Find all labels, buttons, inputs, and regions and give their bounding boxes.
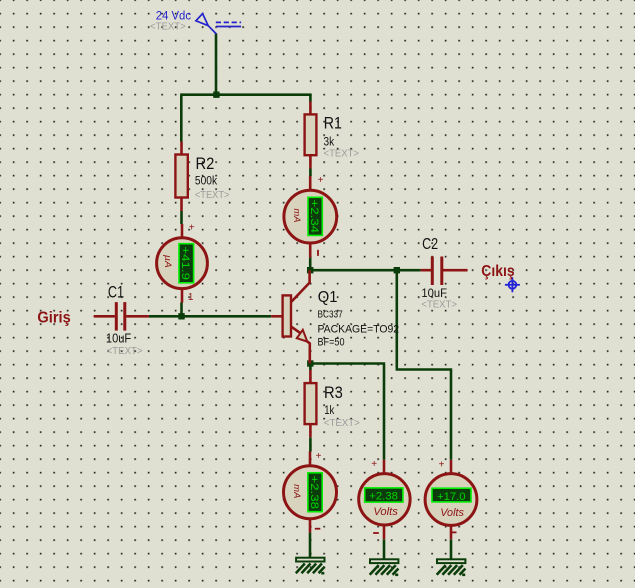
svg-text:BF=50: BF=50 bbox=[318, 337, 345, 349]
svg-text:+2.38: +2.38 bbox=[308, 475, 320, 509]
svg-text:+41.9: +41.9 bbox=[179, 246, 191, 280]
svg-text:BC337: BC337 bbox=[318, 308, 343, 320]
svg-text:Q1: Q1 bbox=[318, 289, 338, 306]
svg-text:R2: R2 bbox=[196, 154, 215, 173]
svg-text:+: + bbox=[439, 460, 445, 471]
svg-text:Volts: Volts bbox=[440, 507, 464, 519]
svg-text:Giriş: Giriş bbox=[37, 310, 70, 327]
svg-text:<TEXT>: <TEXT> bbox=[195, 190, 230, 201]
svg-text:Çıkış: Çıkış bbox=[481, 263, 514, 280]
svg-text:<TEXT>: <TEXT> bbox=[324, 418, 360, 429]
svg-text:Volts: Volts bbox=[373, 506, 398, 518]
svg-text:R1: R1 bbox=[324, 113, 342, 132]
svg-text:mA: mA bbox=[292, 209, 303, 223]
svg-text:+: + bbox=[316, 451, 322, 462]
svg-text:C1: C1 bbox=[108, 283, 124, 301]
svg-text:<TEXT>: <TEXT> bbox=[324, 148, 360, 159]
svg-text:1k: 1k bbox=[324, 403, 335, 417]
svg-text:+2.34: +2.34 bbox=[308, 200, 320, 234]
svg-text:<TEXT>: <TEXT> bbox=[421, 300, 457, 311]
svg-text:+: + bbox=[371, 459, 377, 470]
svg-text:24 Vdc: 24 Vdc bbox=[156, 9, 191, 23]
svg-text:R3: R3 bbox=[324, 384, 343, 402]
svg-text:µA: µA bbox=[163, 255, 174, 268]
svg-text:+17.0: +17.0 bbox=[437, 491, 466, 503]
svg-text:+: + bbox=[189, 223, 195, 234]
svg-text:3k: 3k bbox=[324, 134, 335, 148]
svg-text:C2: C2 bbox=[422, 236, 438, 253]
svg-text:PACKAGE=TO92: PACKAGE=TO92 bbox=[318, 324, 400, 336]
svg-text:10uF: 10uF bbox=[421, 286, 447, 300]
svg-text:500k: 500k bbox=[195, 174, 218, 188]
svg-text:+: + bbox=[318, 175, 324, 186]
svg-text:<TEXT>: <TEXT> bbox=[107, 346, 143, 357]
svg-text:+2.38: +2.38 bbox=[369, 491, 398, 503]
svg-text:10uF: 10uF bbox=[106, 332, 132, 346]
svg-text:mA: mA bbox=[292, 484, 303, 498]
svg-text:1: 1 bbox=[188, 292, 194, 303]
svg-text:<TEXT>: <TEXT> bbox=[150, 21, 186, 32]
